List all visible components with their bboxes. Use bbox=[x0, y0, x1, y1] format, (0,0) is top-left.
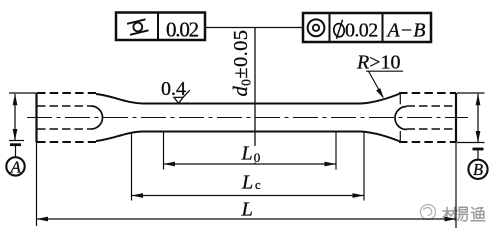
svg-text:A−B: A−B bbox=[386, 19, 426, 41]
svg-text:0.02: 0.02 bbox=[345, 19, 378, 41]
svg-text:0.4: 0.4 bbox=[161, 78, 186, 100]
svg-text:L: L bbox=[241, 172, 253, 194]
svg-text:L: L bbox=[241, 199, 253, 221]
svg-text:A: A bbox=[10, 157, 22, 176]
svg-text:B: B bbox=[473, 160, 483, 179]
svg-text:d0±0.05: d0±0.05 bbox=[230, 30, 254, 97]
svg-text:R>10: R>10 bbox=[356, 52, 401, 74]
svg-text:0: 0 bbox=[254, 150, 260, 165]
svg-text:0.02: 0.02 bbox=[166, 17, 199, 41]
svg-text:c: c bbox=[255, 178, 261, 192]
svg-text:L: L bbox=[241, 143, 253, 165]
